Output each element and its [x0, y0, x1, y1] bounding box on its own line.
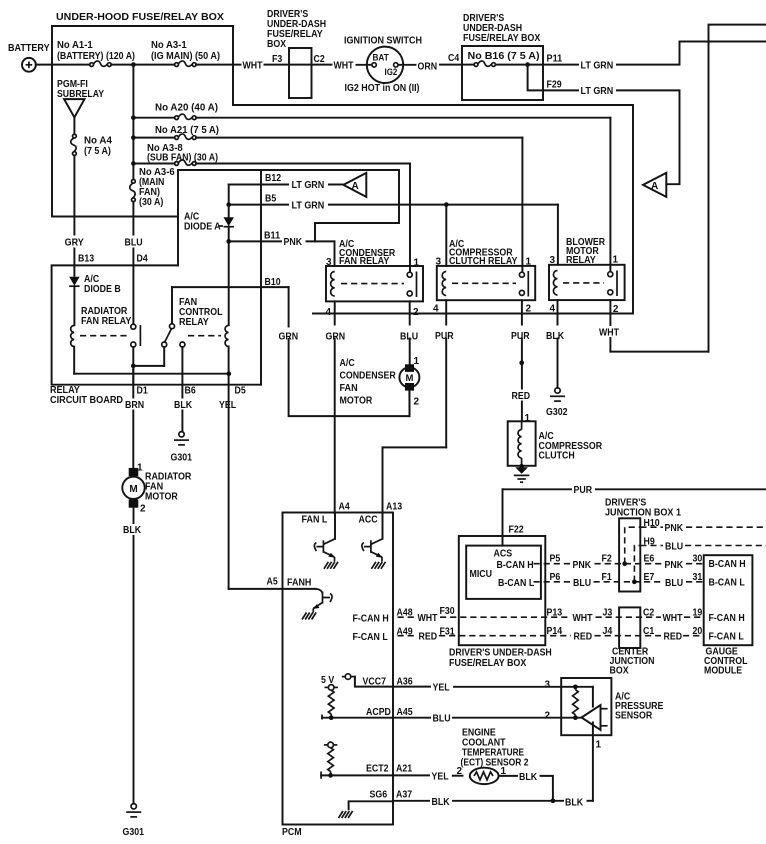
- svg-text:BLU: BLU: [665, 578, 683, 589]
- svg-text:1: 1: [414, 258, 420, 269]
- svg-text:BLU: BLU: [125, 238, 143, 249]
- svg-text:DIODE B: DIODE B: [84, 284, 121, 295]
- svg-text:B11: B11: [264, 231, 280, 242]
- svg-text:F22: F22: [509, 525, 525, 536]
- svg-text:2: 2: [613, 304, 619, 315]
- svg-text:FAN L: FAN L: [302, 515, 328, 526]
- radiator fan motor: [122, 463, 192, 515]
- svg-text:4: 4: [325, 307, 331, 318]
- svg-text:RED: RED: [664, 632, 683, 643]
- svg-text:PNK: PNK: [284, 237, 303, 248]
- svg-text:PUR: PUR: [511, 331, 530, 342]
- svg-text:RED: RED: [512, 391, 531, 402]
- wire A3-6 down to radiator fan relay switch (BLU D4): [121, 202, 148, 325]
- svg-text:No A1-1: No A1-1: [57, 40, 93, 51]
- wire diode B to radiator fan relay coil: [73, 286, 75, 325]
- pin A48 F-CAN H: [353, 608, 413, 625]
- junction dot P11/F29: [525, 62, 530, 67]
- junction dot D1 switch: [131, 364, 136, 369]
- wire B6 BLK to G301: [173, 347, 196, 432]
- svg-text:(30 A): (30 A): [139, 197, 163, 208]
- wire PUR to driver's junction box 1 and MICU F22: [503, 485, 766, 546]
- fuse No A3-1 (IG MAIN) (50 A): [151, 40, 220, 67]
- svg-text:IGNITION SWITCH: IGNITION SWITCH: [344, 36, 422, 47]
- svg-text:BRN: BRN: [125, 400, 144, 411]
- svg-text:PUR: PUR: [574, 485, 593, 496]
- wire A3-1 to F3, WHT: [196, 61, 289, 72]
- wire B12 LT GRN to arrow A: [229, 173, 344, 191]
- svg-text:MODULE: MODULE: [704, 666, 742, 677]
- ignition switch: [344, 36, 422, 95]
- svg-text:A37: A37: [396, 790, 412, 801]
- wire B16 to P11 junction: [496, 64, 544, 66]
- svg-text:4: 4: [549, 304, 555, 315]
- off-page arrow A right: [643, 173, 666, 197]
- svg-text:1: 1: [596, 740, 602, 751]
- wire B5 LT GRN to relay coils: [229, 194, 558, 212]
- junction dot clutch ground: [519, 464, 524, 469]
- svg-text:A4: A4: [339, 502, 351, 513]
- svg-text:B12: B12: [265, 173, 281, 184]
- svg-text:G301: G301: [123, 827, 145, 838]
- svg-text:D4: D4: [137, 254, 149, 265]
- svg-text:B6: B6: [185, 386, 197, 397]
- svg-text:2: 2: [140, 504, 146, 515]
- wire fuse A1-1 to fuse A3-1 with junction: [111, 64, 174, 66]
- wire VCC7 YEL to pressure sensor pin3: [393, 680, 575, 694]
- svg-text:WHT: WHT: [243, 61, 263, 72]
- under-hood fuse/relay box: [52, 12, 633, 314]
- driver's under-dash fuse/relay box F3-C2: [267, 9, 326, 98]
- svg-text:3: 3: [435, 257, 441, 268]
- svg-text:A13: A13: [386, 502, 402, 513]
- wire P11 LT GRN off-page: [543, 42, 766, 72]
- svg-text:ACPD: ACPD: [366, 707, 391, 718]
- svg-text:BLU: BLU: [433, 713, 451, 724]
- svg-text:B10: B10: [265, 277, 281, 288]
- svg-text:CONDENSER: CONDENSER: [340, 371, 397, 382]
- wire condenser relay pin4 GRN to PCM A4: [325, 301, 350, 513]
- wire blower relay pin2 WHT off-page: [598, 300, 709, 352]
- svg-text:P5: P5: [550, 554, 561, 565]
- wire H9 BLU dashed: [634, 537, 766, 582]
- wire B5 to clutch relay pin3: [445, 205, 447, 266]
- transistor FANH: [283, 589, 333, 620]
- svg-text:M: M: [129, 484, 137, 495]
- wire A4 down GRY B13: [62, 156, 94, 276]
- svg-text:RED: RED: [574, 632, 593, 643]
- svg-text:(IG MAIN) (50 A): (IG MAIN) (50 A): [151, 51, 220, 62]
- wire ECT2 YEL to ECT sensor: [366, 764, 463, 783]
- svg-text:BAT: BAT: [373, 53, 390, 63]
- svg-text:CLUTCH: CLUTCH: [539, 451, 575, 462]
- svg-text:GRY: GRY: [65, 238, 84, 249]
- svg-text:FUSE/RELAY BOX: FUSE/RELAY BOX: [463, 33, 541, 44]
- junction dot ACPD pull-up: [329, 715, 334, 720]
- engine coolant temperature ECT sensor 2: [461, 728, 553, 801]
- svg-text:SG6: SG6: [370, 790, 388, 801]
- svg-text:YEL: YEL: [433, 682, 450, 693]
- svg-text:B-CAN H: B-CAN H: [497, 560, 534, 571]
- driver's junction box 1: [605, 498, 681, 592]
- svg-text:MICU: MICU: [470, 569, 493, 580]
- svg-text:D5: D5: [235, 386, 247, 397]
- svg-text:FANH: FANH: [287, 578, 311, 589]
- svg-text:F-CAN H: F-CAN H: [353, 614, 389, 625]
- svg-text:C4: C4: [448, 53, 460, 64]
- gauge control module: [704, 555, 753, 676]
- svg-text:BLK: BLK: [432, 797, 451, 808]
- fuse No A21 (7 5 A) wire to clutch relay pin1: [133, 125, 522, 272]
- svg-text:F2: F2: [602, 554, 613, 565]
- wire fan control common up to B10: [171, 287, 173, 324]
- blower motor relay: [549, 237, 625, 315]
- svg-text:WHT: WHT: [418, 613, 438, 624]
- wire battery to fuse A1-1: [36, 64, 90, 66]
- svg-text:BLU: BLU: [400, 332, 418, 343]
- svg-text:BLK: BLK: [565, 798, 584, 809]
- svg-text:C1: C1: [643, 626, 655, 637]
- driver's under-dash fuse/relay box lower: [449, 536, 552, 669]
- ground G301 lower: [123, 804, 145, 838]
- junction dot BLK sensor grounds: [551, 798, 556, 803]
- svg-text:PNK: PNK: [665, 560, 684, 571]
- wire B-CAN L BLU dashed: [534, 572, 704, 589]
- svg-text:1: 1: [613, 255, 619, 266]
- MICU ACS module: [466, 546, 541, 599]
- svg-text:No B16 (7 5 A): No B16 (7 5 A): [468, 51, 540, 62]
- svg-text:BLK: BLK: [174, 400, 193, 411]
- svg-text:WHT: WHT: [334, 61, 354, 72]
- svg-text:GRN: GRN: [326, 332, 346, 343]
- svg-text:JUNCTION BOX 1: JUNCTION BOX 1: [605, 508, 681, 519]
- junction dot pressure sensor pin3: [573, 684, 578, 689]
- svg-text:F-CAN H: F-CAN H: [709, 613, 745, 624]
- svg-text:BLK: BLK: [519, 772, 538, 783]
- svg-text:LT GRN: LT GRN: [581, 86, 614, 97]
- svg-text:A: A: [352, 181, 359, 192]
- junction dot B5 diode A: [226, 202, 231, 207]
- junction dot A21: [131, 135, 136, 140]
- svg-text:G301: G301: [171, 453, 193, 464]
- svg-text:E7: E7: [644, 572, 655, 583]
- ground G301 upper: [171, 432, 193, 464]
- svg-text:B-CAN L: B-CAN L: [498, 578, 534, 589]
- svg-text:B-CAN H: B-CAN H: [709, 559, 746, 570]
- junction dot clutch RED: [519, 360, 524, 365]
- svg-text:G302: G302: [546, 407, 568, 418]
- svg-text:No A20 (40 A): No A20 (40 A): [155, 103, 218, 114]
- svg-text:2: 2: [526, 304, 532, 315]
- wire F-CAN H WHT dashed: [398, 606, 704, 624]
- junction dot pressure sensor pin2: [573, 715, 578, 720]
- svg-text:A: A: [651, 181, 658, 192]
- transistor ACC: [362, 513, 386, 569]
- A/C diode B: [69, 274, 121, 295]
- svg-text:MOTOR: MOTOR: [340, 396, 373, 407]
- svg-text:D1: D1: [137, 386, 149, 397]
- svg-text:FAN: FAN: [340, 383, 358, 394]
- ground compressor clutch: [515, 467, 528, 474]
- fuse No A3-6 (MAIN FAN) (30 A): [130, 167, 175, 208]
- PCM box: [282, 513, 393, 839]
- svg-text:2: 2: [413, 307, 419, 318]
- wire C2 to ignition switch, WHT: [312, 61, 371, 72]
- A/C pressure sensor: [561, 678, 663, 735]
- svg-text:No A3-1: No A3-1: [151, 40, 187, 51]
- wire main bus down x133: [132, 65, 134, 180]
- wire WHT off-page top right: [709, 25, 766, 352]
- svg-text:ORN: ORN: [418, 62, 438, 73]
- svg-text:1: 1: [414, 356, 420, 367]
- svg-text:(7 5 A): (7 5 A): [84, 146, 111, 157]
- wire ACPD BLU to pressure sensor pin2: [366, 707, 581, 724]
- transistor FAN L: [314, 513, 338, 569]
- svg-text:FAN RELAY: FAN RELAY: [81, 316, 132, 327]
- svg-text:3: 3: [326, 257, 332, 268]
- junction dot B5 clutch coil: [444, 202, 449, 207]
- svg-text:P11: P11: [547, 54, 563, 65]
- ground G302: [546, 388, 568, 418]
- junction dot D5 coil common: [226, 371, 231, 376]
- svg-text:E6: E6: [644, 554, 655, 565]
- wire y170 box link to PNK riser: [178, 170, 399, 265]
- svg-text:ECT2: ECT2: [366, 764, 389, 775]
- junction dot main bus: [131, 62, 136, 67]
- svg-text:WHT: WHT: [663, 613, 683, 624]
- svg-text:4: 4: [433, 304, 439, 315]
- svg-text:B-CAN L: B-CAN L: [709, 578, 745, 589]
- svg-text:ACC: ACC: [359, 515, 378, 526]
- battery B+: [8, 43, 50, 72]
- svg-text:A5: A5: [267, 577, 279, 588]
- svg-text:3: 3: [544, 680, 550, 691]
- wire pressure sensor pin1 down: [593, 723, 602, 801]
- svg-text:DRIVER'S UNDER-DASH: DRIVER'S UNDER-DASH: [449, 648, 552, 659]
- svg-text:PNK: PNK: [665, 523, 684, 534]
- fuse No A1-1 (BATTERY) (120 A): [57, 40, 135, 67]
- wire B11 PNK to condenser relay pin3: [229, 231, 335, 267]
- svg-text:VCC7: VCC7: [363, 677, 387, 688]
- fuse B16: [462, 64, 474, 66]
- svg-text:WHT: WHT: [599, 328, 619, 339]
- svg-text:LT GRN: LT GRN: [581, 60, 614, 71]
- 5V supply VCC7: [321, 674, 413, 688]
- svg-text:P13: P13: [547, 608, 563, 619]
- svg-text:No A21 (7 5 A): No A21 (7 5 A): [155, 125, 219, 136]
- wire diode A column: [228, 185, 230, 218]
- svg-text:30: 30: [693, 554, 703, 565]
- svg-text:2: 2: [414, 397, 420, 408]
- 5V pull-up ACPD: [322, 685, 393, 720]
- svg-text:1: 1: [526, 257, 532, 268]
- wire F-CAN L RED dashed: [398, 626, 704, 643]
- svg-text:LT GRN: LT GRN: [292, 200, 325, 211]
- svg-text:F3: F3: [272, 54, 283, 65]
- wire H10 PNK dashed: [625, 518, 766, 564]
- A/C condenser fan motor: [340, 356, 420, 416]
- wire radiator relay switch out to D1 and fan control contact: [133, 347, 164, 385]
- wire clutch relay pin4 PUR to PCM A13 (ACC): [383, 300, 461, 513]
- junction dot B-CAN L in junction box: [632, 579, 637, 584]
- svg-text:C2: C2: [314, 54, 326, 65]
- PGM-FI subrelay: [57, 79, 104, 134]
- wire motor 2 BLK to G301: [122, 508, 145, 804]
- junction dot A3-8: [131, 161, 136, 166]
- svg-text:BLK: BLK: [546, 331, 565, 342]
- wire B5 to blower relay pin3: [557, 205, 559, 265]
- svg-text:P6: P6: [550, 572, 561, 583]
- svg-text:IG2: IG2: [385, 67, 398, 77]
- 5V pull-up ECT2: [321, 742, 393, 779]
- svg-text:ACS: ACS: [494, 549, 513, 560]
- svg-text:BLK: BLK: [123, 525, 142, 536]
- svg-text:BOX: BOX: [267, 39, 286, 50]
- A/C compressor clutch: [508, 421, 603, 466]
- svg-text:(ECT) SENSOR 2: (ECT) SENSOR 2: [461, 758, 529, 769]
- off-page arrow A left: [343, 173, 366, 197]
- svg-text:SENSOR: SENSOR: [615, 711, 653, 722]
- A/C compressor clutch relay: [433, 239, 535, 315]
- svg-text:B13: B13: [78, 254, 94, 265]
- center junction box: [610, 607, 655, 676]
- wire F29 LT GRN to arrow A: [528, 65, 680, 185]
- svg-text:BLU: BLU: [665, 541, 683, 552]
- svg-text:FUSE/RELAY BOX: FUSE/RELAY BOX: [449, 658, 527, 669]
- svg-text:YEL: YEL: [432, 772, 449, 783]
- svg-text:3: 3: [549, 255, 555, 266]
- wire B10 GRN down to motor loop: [172, 277, 410, 416]
- svg-text:(SUB FAN) (30 A): (SUB FAN) (30 A): [147, 153, 218, 164]
- svg-text:RED: RED: [419, 632, 438, 643]
- svg-text:WHT: WHT: [573, 613, 593, 624]
- svg-text:IG2 HOT in ON (II): IG2 HOT in ON (II): [345, 83, 420, 94]
- A/C condenser fan relay: [325, 239, 423, 318]
- relay circuit board box: [50, 170, 261, 406]
- junction dot ECT2 pull-up: [328, 773, 333, 778]
- svg-text:UNDER-HOOD FUSE/RELAY BOX: UNDER-HOOD FUSE/RELAY BOX: [56, 12, 224, 23]
- svg-text:PCM: PCM: [282, 827, 302, 838]
- pin A49 F-CAN L: [353, 627, 413, 644]
- A/C diode A: [184, 212, 234, 233]
- radiator fan relay: [71, 306, 141, 347]
- svg-text:PNK: PNK: [573, 560, 592, 571]
- svg-text:A/C: A/C: [340, 358, 355, 369]
- driver's under-dash fuse/relay box B16: [462, 13, 543, 100]
- svg-text:CIRCUIT BOARD: CIRCUIT BOARD: [50, 395, 123, 406]
- fuse No A20 (40 A) wire to blower relay pin1: [133, 103, 610, 272]
- wire fan control coil low through dot down D5 YEL: [218, 347, 283, 589]
- svg-text:C2: C2: [643, 608, 655, 619]
- wire radiator relay coil low to D5 rail: [73, 347, 75, 374]
- svg-text:F-CAN L: F-CAN L: [709, 632, 744, 643]
- svg-text:M: M: [405, 373, 413, 384]
- svg-text:2: 2: [544, 711, 550, 722]
- wire diode A to B11 and coil: [228, 227, 230, 326]
- wire condenser relay pin2 BLU to fan motor: [399, 301, 423, 364]
- pin A13 ACC label: [359, 502, 403, 526]
- svg-text:PUR: PUR: [435, 331, 454, 342]
- wire clutch relay pin2 PUR RED to compressor clutch: [510, 300, 535, 424]
- svg-text:LT GRN: LT GRN: [292, 180, 325, 191]
- fuse No A3-8 (SUB FAN) (30 A) wire to condenser relay pin1: [133, 143, 410, 272]
- wire blower relay pin4 BLK to G302: [545, 300, 570, 388]
- wire ignition to B16 fuse, ORN: [398, 53, 462, 73]
- wire D1 BRN to radiator fan motor: [124, 366, 148, 468]
- svg-text:DIODE A: DIODE A: [184, 222, 221, 233]
- junction dot A20: [131, 115, 136, 120]
- svg-text:F30: F30: [440, 606, 456, 617]
- svg-text:A21: A21: [396, 764, 412, 775]
- svg-text:F29: F29: [547, 80, 563, 91]
- svg-text:BATTERY: BATTERY: [8, 43, 50, 54]
- svg-text:No A4: No A4: [84, 136, 112, 147]
- svg-text:MOTOR: MOTOR: [145, 492, 178, 503]
- svg-text:(BATTERY) (120 A): (BATTERY) (120 A): [57, 51, 135, 62]
- svg-text:F-CAN L: F-CAN L: [353, 632, 388, 643]
- wire SG6 BLK ground net: [339, 790, 593, 819]
- svg-text:P14: P14: [547, 626, 563, 637]
- junction dot B11 diode A: [226, 239, 231, 244]
- svg-text:BLU: BLU: [573, 578, 591, 589]
- fan control relay: [162, 297, 229, 347]
- fuse No A4 (7 5 A): [71, 134, 113, 157]
- pin A5 FANH label: [267, 577, 312, 589]
- svg-text:BOX: BOX: [610, 666, 629, 677]
- svg-text:RELAY: RELAY: [179, 317, 209, 328]
- pin A4 FAN L label: [302, 502, 351, 526]
- svg-text:YEL: YEL: [219, 400, 236, 411]
- wire B-CAN H PNK dashed: [534, 554, 704, 572]
- svg-text:B5: B5: [265, 194, 277, 205]
- svg-text:1: 1: [525, 413, 531, 424]
- svg-text:A45: A45: [397, 707, 413, 718]
- junction dot B-CAN H in junction box: [622, 561, 627, 566]
